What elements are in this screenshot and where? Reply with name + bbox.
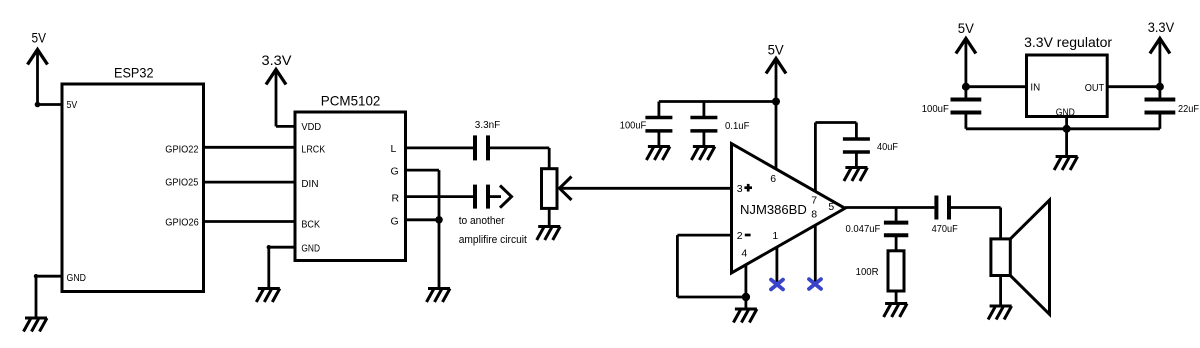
svg-text:3.3V: 3.3V <box>262 52 293 68</box>
svg-text:ESP32: ESP32 <box>114 65 154 81</box>
svg-text:IN: IN <box>1030 81 1040 93</box>
svg-text:L: L <box>391 143 397 155</box>
svg-text:2: 2 <box>737 230 743 242</box>
svg-text:8: 8 <box>811 209 817 221</box>
svg-text:3.3V regulator: 3.3V regulator <box>1024 34 1112 50</box>
svg-text:OUT: OUT <box>1085 82 1105 94</box>
svg-text:40uF: 40uF <box>877 141 898 153</box>
svg-text:5V: 5V <box>958 20 975 36</box>
svg-text:3.3nF: 3.3nF <box>475 119 500 131</box>
svg-text:R: R <box>392 193 400 205</box>
svg-text:3.3V: 3.3V <box>1148 19 1175 35</box>
svg-text:5V: 5V <box>768 42 785 58</box>
svg-text:100uF: 100uF <box>620 119 646 131</box>
svg-text:GND: GND <box>301 242 320 254</box>
svg-text:BCK: BCK <box>301 218 320 230</box>
svg-text:5: 5 <box>828 201 834 213</box>
svg-text:100uF: 100uF <box>922 103 949 115</box>
svg-text:DIN: DIN <box>301 178 318 190</box>
svg-text:0.1uF: 0.1uF <box>725 120 749 132</box>
svg-text:GND: GND <box>1056 106 1075 118</box>
svg-text:LRCK: LRCK <box>301 144 325 156</box>
svg-text:6: 6 <box>770 173 776 185</box>
svg-text:VDD: VDD <box>301 121 321 133</box>
svg-text:100R: 100R <box>856 266 879 278</box>
svg-text:NJM386BD: NJM386BD <box>740 202 807 217</box>
svg-text:PCM5102: PCM5102 <box>321 93 381 109</box>
svg-text:GPIO26: GPIO26 <box>165 216 199 228</box>
svg-text:G: G <box>391 216 399 228</box>
svg-text:4: 4 <box>741 247 747 259</box>
svg-text:amplifire circuit: amplifire circuit <box>459 234 527 246</box>
svg-text:22uF: 22uF <box>1178 103 1199 115</box>
svg-text:0.047uF: 0.047uF <box>846 223 881 235</box>
svg-text:G: G <box>391 166 399 178</box>
svg-text:GPIO25: GPIO25 <box>165 177 198 189</box>
svg-text:to another: to another <box>459 215 505 227</box>
svg-text:5V: 5V <box>32 30 47 46</box>
svg-text:1: 1 <box>772 230 778 242</box>
svg-text:5V: 5V <box>67 99 78 111</box>
svg-text:470uF: 470uF <box>932 223 958 235</box>
svg-text:3: 3 <box>737 183 743 195</box>
svg-text:GND: GND <box>67 272 87 284</box>
svg-text:7: 7 <box>811 195 817 207</box>
svg-text:GPIO22: GPIO22 <box>165 143 198 155</box>
